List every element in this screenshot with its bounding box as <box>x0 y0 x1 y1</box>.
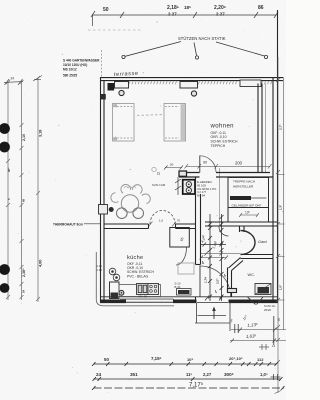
threshold ticks <box>205 296 223 301</box>
top dimension labels <box>103 5 264 17</box>
kitchen counter <box>119 285 161 297</box>
hole punch dot 1 <box>0 123 10 134</box>
hall mini dim lower <box>200 256 229 260</box>
hall top door leaf <box>199 156 201 173</box>
küche room label <box>127 255 154 278</box>
leader to right column <box>216 42 268 59</box>
ticks left of fixture <box>175 177 181 195</box>
window top-left <box>115 82 129 89</box>
tall fridge fixture <box>110 282 120 299</box>
bottom window kitchen <box>120 298 173 300</box>
dashed passage arch <box>150 211 175 225</box>
kitchen cupboard box <box>170 228 190 248</box>
faint scrawl middle <box>137 115 162 116</box>
lower interior wall (kitchen top) <box>104 224 196 229</box>
kitchen door leaf <box>199 266 201 297</box>
right corner note <box>264 304 275 312</box>
cupboard door arc <box>176 248 187 266</box>
plus marks right <box>259 344 269 350</box>
right extension ticks <box>278 175 285 301</box>
radiator middle <box>177 289 192 296</box>
wall extension dashed <box>101 50 103 77</box>
faint guide line <box>88 29 142 31</box>
stove unit <box>148 284 159 295</box>
gartenwasser note <box>63 59 100 78</box>
round column middle <box>191 91 196 96</box>
sink circles left <box>109 268 120 281</box>
entrance micro labels <box>228 314 282 324</box>
wohnen room label <box>210 124 238 149</box>
window top-right <box>240 80 261 87</box>
left dim chain line 1 <box>6 80 10 300</box>
faint marks wohnen <box>152 167 160 174</box>
dark dot on wall <box>109 207 114 212</box>
right exterior wall <box>273 10 278 303</box>
dining table <box>121 195 138 212</box>
bottom exterior wall <box>100 297 278 303</box>
left dim chain line 3 <box>36 76 40 302</box>
bottom dim line A <box>93 377 283 381</box>
leader middle <box>194 43 199 60</box>
left chain rotated labels <box>7 130 43 293</box>
hall dim vertical line 2 <box>220 214 224 301</box>
left chain top label <box>4 76 42 86</box>
counter along wall C <box>178 263 194 274</box>
wc top wall <box>229 255 274 271</box>
wc window radiator <box>248 284 272 305</box>
right vertical dim chain <box>275 57 284 394</box>
top wall hatch <box>129 81 272 84</box>
entrance arrow <box>213 309 215 319</box>
fixture labels <box>197 180 217 198</box>
small box on wall <box>179 171 187 176</box>
dim line door/200 <box>185 164 272 169</box>
top dimension line <box>91 11 278 26</box>
hole punch dot 4 <box>0 283 9 293</box>
herd fixture <box>183 180 195 194</box>
entrance dim 1,15 <box>231 328 286 332</box>
leader to left column <box>122 42 181 59</box>
stairwell side walls <box>228 208 269 223</box>
leaf scribbles <box>124 187 136 189</box>
top exterior wall <box>100 78 283 81</box>
stair rail dark bar <box>230 196 251 200</box>
bottom dim row labels lower <box>96 372 268 377</box>
slanted hall labels <box>200 237 217 249</box>
treppe box <box>228 178 269 208</box>
interior wall wohnen right <box>258 84 266 173</box>
entrance dim 1,635 <box>230 339 286 343</box>
extension line <box>219 168 221 226</box>
hall dim vertical line 1 <box>208 214 212 301</box>
bottom dim line 1 <box>92 362 278 366</box>
chairs <box>111 184 150 203</box>
column 10/10 top-left (filled) <box>108 83 115 91</box>
hole punch dot 3 <box>0 264 10 275</box>
135 dim <box>239 213 259 217</box>
gard wall stub <box>240 226 245 232</box>
hall top door arc <box>200 156 216 172</box>
garderobe top wall <box>205 222 277 226</box>
hall mini dim top <box>201 243 226 247</box>
hall dim rotated labels <box>201 234 227 293</box>
pot circle <box>119 290 124 295</box>
wardrobe furniture left <box>113 104 135 142</box>
porch outline <box>195 303 230 331</box>
hole punch dot 2 <box>0 142 10 153</box>
left exterior wall <box>101 78 105 303</box>
wall notch top-left <box>101 94 106 100</box>
sink unit <box>137 284 149 295</box>
hall mini dim upper <box>201 252 241 256</box>
window top-middle <box>180 82 198 89</box>
middle vertical wall (kitchen/hall) <box>196 177 201 301</box>
kitchen window sill <box>96 252 174 306</box>
gard door arc <box>219 227 229 237</box>
gard curved niche <box>241 231 256 255</box>
wc left wall <box>228 268 237 297</box>
plus marks bottom right <box>271 374 281 380</box>
left dim chain line 2 <box>20 80 24 300</box>
upper interior wall (hall/wohnen) <box>179 173 273 178</box>
bottom dim line B <box>92 386 285 390</box>
small wall niche box <box>99 205 108 215</box>
bottom dim row labels upper <box>104 356 264 362</box>
wardrobe furniture right <box>164 104 186 142</box>
kitchen door arc <box>201 266 231 297</box>
round column left <box>119 90 124 95</box>
